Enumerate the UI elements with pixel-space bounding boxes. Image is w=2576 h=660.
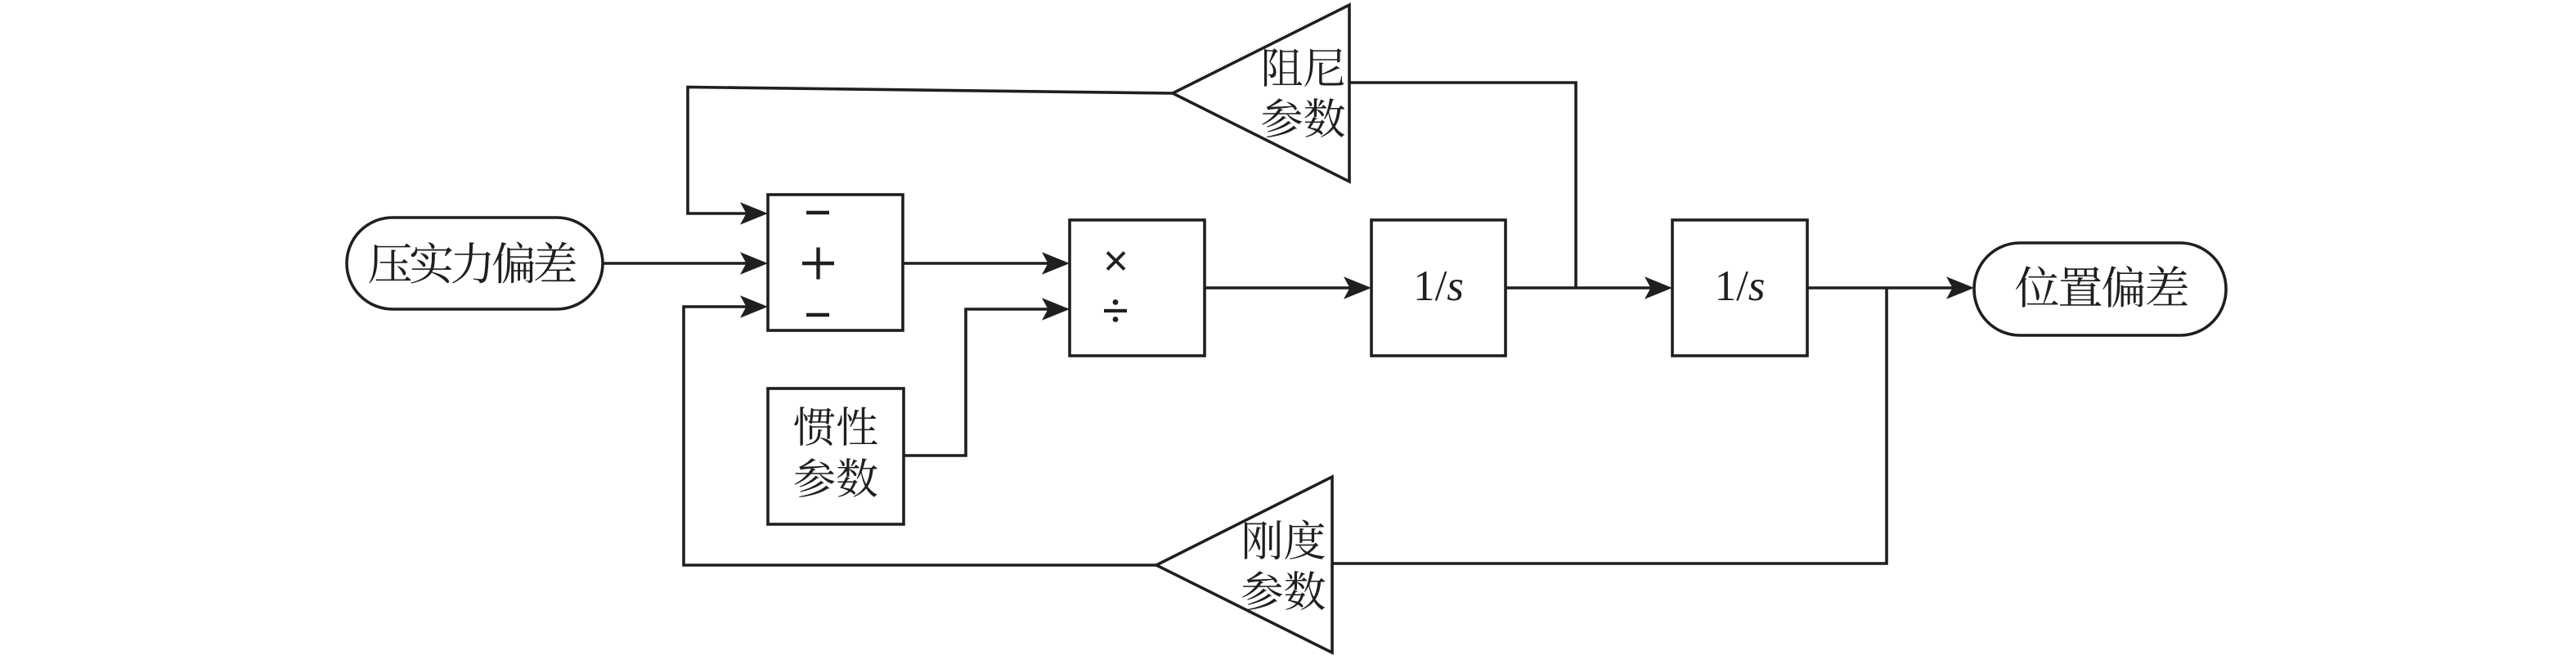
wire: input to sum (middle, +) (603, 252, 768, 275)
wire: inertia block to product ÷ input (904, 298, 1070, 456)
wire: integrator 1 to integrator 2, with junction tap (1506, 276, 1672, 299)
wire: integrator 2 output to position output port (1807, 276, 1974, 299)
input port: compaction force deviation stadium (347, 218, 603, 309)
svg-text:1/s: 1/s (1715, 263, 1766, 310)
output port: position deviation stadium (1974, 243, 2226, 335)
gain triangle: damping parameter (top feedback) (1173, 5, 1349, 182)
sum sign − (top input) (806, 211, 829, 214)
wire: tap up from junction to damping gain input (right side) (1349, 83, 1576, 288)
wire: product output to integrator 1 (1205, 276, 1371, 299)
product block ×÷ (1070, 220, 1205, 356)
wire: top feedback from damping gain apex to sum top input (−) (688, 88, 1173, 225)
sum sign + (middle input) (802, 248, 834, 280)
integrator block 1/s #2 (1672, 220, 1807, 356)
wire: bottom feedback from stiffness gain apex to sum bottom input (−) (684, 295, 1156, 565)
wire: tap down from output wire to stiffness gain input (right side) (1332, 288, 1887, 563)
constant block: inertia parameter (768, 388, 904, 524)
integrator block 1/s #1 (1371, 220, 1506, 356)
svg-text:1/s: 1/s (1413, 263, 1464, 310)
× sign (1107, 253, 1124, 270)
÷ sign (1104, 309, 1127, 312)
gain triangle: stiffness parameter (bottom feedback) (1156, 477, 1332, 653)
wire: sum output to product × input (903, 252, 1070, 275)
sum block (768, 195, 903, 330)
sum sign − (bottom input) (806, 313, 829, 317)
